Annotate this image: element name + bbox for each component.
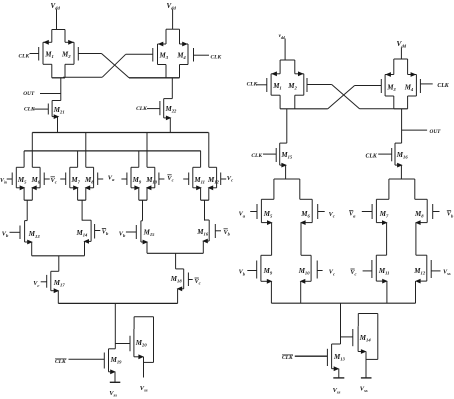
label Vc (gate of M6) xyxy=(329,211,335,219)
wire pair M9/M10 left drain riser to lower bus xyxy=(138,151,140,167)
nmos pair M11 M12 xyxy=(189,167,221,200)
wire OUT stub xyxy=(40,93,61,95)
wire M11 source down to rail xyxy=(386,281,388,303)
label Vc (gate of M10) xyxy=(329,269,335,277)
label Vin (gate of M5) xyxy=(0,178,7,185)
wire CLK to M1 gate xyxy=(30,53,39,55)
label Va (gates of M8/M9) xyxy=(108,174,115,182)
wire M16 source down to stack xyxy=(400,165,402,179)
wire M12 source down to rail xyxy=(415,281,417,303)
power Vdd (right circuit, right pair) xyxy=(397,39,407,49)
label CLK (gate of right M1) xyxy=(247,82,258,88)
pmos pair M1 M2 (right circuit) xyxy=(267,60,307,109)
wire step verticals to M7/M8 drains xyxy=(376,179,427,199)
wire drain bar down to M22 xyxy=(171,78,173,99)
svg-text:CLK: CLK xyxy=(437,83,449,89)
svg-text:CLK: CLK xyxy=(55,359,66,365)
wire step verticals to M5/M6 drains xyxy=(261,179,312,199)
wire gate stub left of M9 xyxy=(121,178,127,180)
wire drain bar down to OUT junction xyxy=(60,78,62,101)
wire gate stub left of M7 xyxy=(60,178,65,180)
wire pair M5/M6 right drain riser to upper bus xyxy=(31,133,33,168)
label Vc (gate of M17) xyxy=(33,280,39,288)
transistor M11 xyxy=(363,255,390,283)
label Va (gate of M5) xyxy=(239,211,246,219)
wire M13 source down xyxy=(31,242,33,256)
nmos pair M9 M10 xyxy=(127,167,159,200)
label CLK (gate of M16) xyxy=(366,153,378,159)
label OUT (right circuit) xyxy=(430,129,442,135)
node tail bar M13/M14 xyxy=(32,255,85,257)
power vdd (right circuit, left pair) xyxy=(279,33,285,40)
wire tail bar down to M17 xyxy=(58,256,60,271)
transistor M6 xyxy=(300,199,325,225)
label CLK-bar (gate of M19) xyxy=(55,359,67,365)
transistor M17 xyxy=(41,271,66,293)
wire M14 source down xyxy=(358,349,366,378)
label Vb-bar (gate of M14) xyxy=(102,229,109,237)
node tail rail M17/M18 xyxy=(58,302,177,304)
transistor M15 (right circuit clocked) xyxy=(263,143,293,167)
label OUT xyxy=(23,91,35,97)
ground Vss under right M14 xyxy=(360,378,372,393)
wire cross-couple M3 gate to left drain node xyxy=(63,54,153,77)
wire M7 source down to M11 xyxy=(376,223,386,256)
wire source bar down xyxy=(142,200,144,220)
transistor M8 xyxy=(414,199,440,225)
label CLK-bar (gate of right M13) xyxy=(282,355,293,361)
svg-text:OUT: OUT xyxy=(430,129,442,135)
wire vdd stem xyxy=(284,39,286,61)
svg-text:CLK: CLK xyxy=(251,153,262,159)
wire gate stub right of M6 xyxy=(44,178,50,180)
label CLK (gate of M15) xyxy=(251,153,262,159)
wire cross-couple right M3 gate to left drain xyxy=(328,86,382,109)
wire M14 source down xyxy=(84,241,86,255)
node drain bar M3/M4 xyxy=(129,77,180,79)
nmos pair M7 M8 xyxy=(66,167,98,200)
transistor M16 xyxy=(196,220,221,243)
svg-text:OUT: OUT xyxy=(23,91,35,97)
wire pair M11/M12 left drain riser to lower bus xyxy=(200,151,202,167)
node step bar under M16 xyxy=(389,178,415,180)
transistor M14 xyxy=(76,220,101,244)
transistor M21 (clocked, left) xyxy=(34,101,65,120)
node tail bar M15/M16 xyxy=(147,252,203,254)
wire M4 gate to CLK xyxy=(194,54,210,56)
label CLK (gate of M1) xyxy=(19,54,30,60)
wire M14 drain loop to source xyxy=(358,314,378,360)
power Vdd (left circuit, left pair) xyxy=(51,2,61,11)
power Vdd (left circuit, right pair) xyxy=(167,2,177,11)
wire M15 source down to stack xyxy=(285,165,287,179)
wire M16 source down xyxy=(202,241,204,253)
node tail rail (right circuit) xyxy=(271,302,415,304)
node drain bar M1/M2 (OUT node) xyxy=(52,77,65,79)
label CLK (gate of right M4) xyxy=(437,83,449,89)
wire M20 drain loop to source xyxy=(134,317,153,363)
transistor M7 xyxy=(362,199,389,225)
wire source bar down xyxy=(81,200,83,220)
transistor M9 xyxy=(247,255,273,283)
label Va-bar (gate of M7) xyxy=(349,211,356,219)
wire M10 source down to rail xyxy=(300,281,302,303)
wire M18 source down xyxy=(177,289,179,304)
wire OUT stub xyxy=(402,129,428,131)
wire pair M11/M12 right drain riser to upper bus xyxy=(208,133,210,168)
transistor M18 xyxy=(170,269,193,291)
ground Vss under right M13 xyxy=(333,369,345,395)
wire CLK to right M1 gate xyxy=(256,84,267,86)
wire right M4 gate to CLK xyxy=(420,83,432,85)
svg-text:CLK: CLK xyxy=(366,153,378,159)
transistor M13 (right tail clock) xyxy=(295,344,346,371)
transistor M15 xyxy=(126,221,155,245)
ground Vss under M19 xyxy=(109,372,120,398)
label Vc-bar (gates of M10/M11) xyxy=(167,175,173,183)
wire cross-couple M2 gate to right drain node xyxy=(78,54,129,78)
label Vc-bar (gates of M6/M7) xyxy=(51,177,57,185)
label Vc (gate of M12) xyxy=(227,175,233,183)
pmos pair M3 M4 (right circuit) xyxy=(381,59,420,109)
label CLK (gate of M22) xyxy=(136,106,147,112)
label Vc-bar (gate of M18) xyxy=(195,278,201,286)
wire M20 source down xyxy=(134,354,144,377)
label Vss (gate of M12) xyxy=(443,269,451,277)
wire tail rail down to M13 xyxy=(340,303,342,344)
svg-text:CLK: CLK xyxy=(19,54,30,60)
node source bar of M9/M10 xyxy=(139,199,147,201)
node drain bar right M3/M4 (OUT) xyxy=(394,108,408,110)
transistor M5 xyxy=(250,199,273,225)
pmos pair M1 M2 cross-coupled xyxy=(39,30,79,78)
node source bar of M5/M6 xyxy=(24,199,32,201)
wire gate stub right of M8 xyxy=(98,178,104,180)
svg-text:CLK: CLK xyxy=(211,55,222,61)
svg-text:CLK: CLK xyxy=(136,106,147,112)
node step bar under M15 xyxy=(274,178,300,180)
label Vb-bar (gate of M8) xyxy=(447,211,454,219)
transistor M13 xyxy=(10,221,41,245)
label Vb (gate of M13) xyxy=(2,231,9,239)
wire tail bar down to M18 xyxy=(175,253,177,269)
node bus upper (latch node) xyxy=(32,132,208,134)
transistor M16 (right circuit clocked) xyxy=(378,143,408,167)
wire M8 source down to M12 xyxy=(416,223,427,256)
label CLK (gate of M4) xyxy=(211,55,222,61)
wire gate stub right of M10 xyxy=(159,178,165,180)
label Vb-bar (gate of M16) xyxy=(224,229,231,237)
wire M9 source down to rail xyxy=(270,281,272,303)
wire drain bar down to M15 xyxy=(286,109,288,143)
wire M17 source down xyxy=(57,291,59,304)
wire gate stub left of M5 xyxy=(7,178,13,180)
wire pair M5/M6 left drain riser to lower bus xyxy=(23,151,25,167)
wire gate stub right of M12 xyxy=(221,178,227,180)
wire cross-couple right M2 gate to right drain xyxy=(307,85,394,109)
node drain bar right M1/M2 xyxy=(280,108,328,110)
transistor M12 xyxy=(413,255,440,283)
node source bar of M7/M8 xyxy=(78,199,86,201)
wire Vdd stem to M3/M4 pair xyxy=(172,10,174,30)
wire source bar down xyxy=(204,200,206,220)
wire drain down to OUT junction xyxy=(401,109,403,143)
svg-text:CLK: CLK xyxy=(282,355,293,361)
pmos pair M3 M4 cross-coupled xyxy=(153,29,194,78)
wire M6 source down to M10 xyxy=(301,223,311,256)
wire M5 source down to M9 xyxy=(261,223,272,256)
wire pair M9/M10 right drain riser to upper bus xyxy=(146,133,148,168)
label CLK (gate of M21) xyxy=(24,107,35,113)
wire M15 source down xyxy=(146,242,148,253)
transistor M14 (right mos capacitor) xyxy=(341,326,372,351)
nmos pair M5 M6 xyxy=(12,167,44,200)
transistor M20 (mos capacitor) xyxy=(115,329,147,357)
transistor M22 (clocked, right) xyxy=(147,99,177,121)
transistor M10 xyxy=(298,255,323,283)
wire M21 source to bus xyxy=(57,117,59,133)
wire tail rail down to M19 xyxy=(114,303,116,348)
label Vb (gate of M15) xyxy=(119,230,126,238)
label Vss under M20 xyxy=(140,385,148,393)
wire M22 source to bus xyxy=(169,118,171,133)
wire pair M7/M8 right drain riser to upper bus xyxy=(85,133,87,168)
svg-text:CLK: CLK xyxy=(247,82,258,88)
node bus lower (latch node) xyxy=(24,150,201,152)
label Vb (gate of M9) xyxy=(239,269,246,277)
svg-text:CLK: CLK xyxy=(24,107,35,113)
wire Vdd stem xyxy=(400,47,402,59)
transistor M19 (tail clock) xyxy=(69,349,123,374)
label Vc-bar (gate of M11) xyxy=(350,269,356,277)
wire pair M7/M8 left drain riser to lower bus xyxy=(77,151,79,167)
node source bar of M11/M12 xyxy=(201,199,209,201)
wire source bar down xyxy=(26,200,28,220)
wire gate stub left of M11 xyxy=(183,178,189,180)
wire Vdd stem to M1/M2 pair xyxy=(56,10,58,30)
